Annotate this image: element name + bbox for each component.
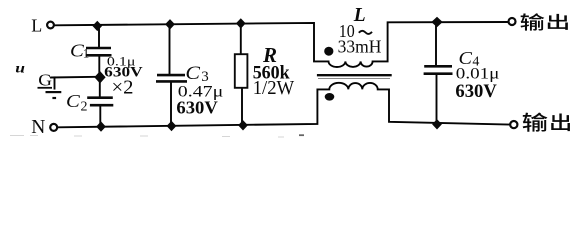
svg-text:×2: ×2	[112, 77, 134, 99]
svg-text:L: L	[353, 5, 366, 26]
svg-text:L: L	[31, 15, 42, 35]
svg-text:u: u	[15, 61, 25, 76]
svg-text:G: G	[38, 71, 52, 90]
svg-text:C: C	[185, 63, 200, 83]
svg-text:1: 1	[83, 46, 90, 61]
svg-text:630V: 630V	[455, 81, 497, 102]
svg-text:630V: 630V	[176, 98, 217, 118]
svg-text:1/2W: 1/2W	[253, 78, 295, 99]
svg-text:C: C	[66, 92, 80, 111]
svg-text:N: N	[31, 117, 45, 138]
svg-text:33mH: 33mH	[338, 37, 382, 57]
svg-text:2: 2	[81, 99, 88, 114]
